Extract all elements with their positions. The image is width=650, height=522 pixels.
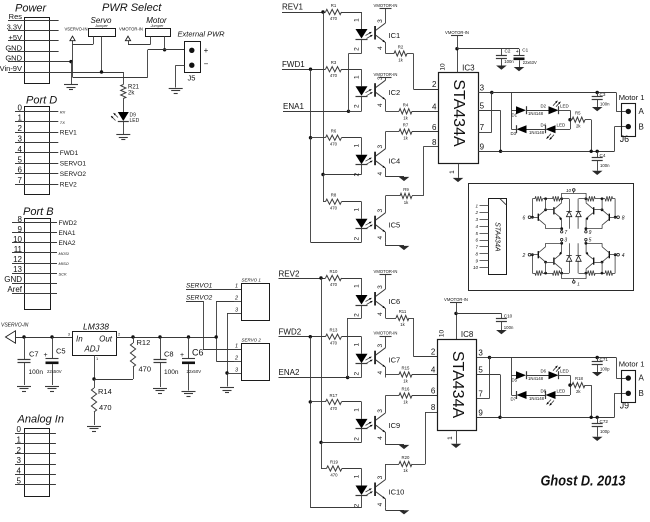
svg-text:4: 4 bbox=[432, 103, 437, 112]
svg-text:3: 3 bbox=[564, 238, 567, 244]
svg-text:R1: R1 bbox=[331, 3, 337, 8]
svg-text:2: 2 bbox=[431, 348, 436, 357]
svg-text:6: 6 bbox=[431, 387, 436, 396]
svg-text:IC7: IC7 bbox=[389, 356, 401, 365]
svg-text:R8: R8 bbox=[331, 193, 337, 198]
svg-text:3: 3 bbox=[377, 475, 384, 479]
svg-text:2: 2 bbox=[354, 237, 361, 241]
svg-text:3: 3 bbox=[377, 285, 384, 289]
svg-text:2: 2 bbox=[354, 313, 361, 317]
svg-text:C72: C72 bbox=[600, 419, 609, 424]
svg-text:10: 10 bbox=[473, 265, 479, 270]
svg-text:C71: C71 bbox=[600, 357, 609, 362]
svg-text:2: 2 bbox=[234, 296, 238, 302]
svg-text:3: 3 bbox=[18, 135, 23, 144]
svg-text:LM338: LM338 bbox=[83, 322, 109, 332]
svg-text:13: 13 bbox=[13, 265, 22, 274]
svg-text:9: 9 bbox=[18, 225, 23, 234]
svg-text:REV2: REV2 bbox=[60, 181, 77, 188]
svg-text:100n: 100n bbox=[504, 325, 514, 330]
svg-text:STA434A: STA434A bbox=[450, 79, 467, 147]
svg-text:IC8: IC8 bbox=[461, 330, 474, 339]
svg-text:2: 2 bbox=[354, 503, 361, 507]
svg-text:7: 7 bbox=[564, 230, 567, 236]
svg-text:3: 3 bbox=[478, 349, 483, 358]
svg-text:100n: 100n bbox=[600, 163, 610, 168]
svg-text:10: 10 bbox=[439, 330, 446, 338]
svg-text:B: B bbox=[639, 123, 644, 132]
svg-text:LED: LED bbox=[130, 118, 140, 124]
svg-text:C6: C6 bbox=[192, 348, 204, 358]
svg-text:3: 3 bbox=[377, 19, 384, 23]
svg-text:SERVO 2: SERVO 2 bbox=[242, 338, 262, 343]
svg-text:100p: 100p bbox=[600, 429, 610, 434]
svg-text:REV1: REV1 bbox=[60, 129, 77, 136]
svg-text:2: 2 bbox=[432, 80, 437, 89]
svg-text:D7: D7 bbox=[511, 397, 517, 402]
svg-text:SCK: SCK bbox=[59, 271, 68, 276]
svg-text:4: 4 bbox=[431, 366, 436, 375]
svg-text:RX: RX bbox=[60, 110, 66, 115]
svg-text:J6: J6 bbox=[620, 134, 629, 144]
svg-text:1N4148: 1N4148 bbox=[529, 396, 545, 401]
svg-text:IC2: IC2 bbox=[389, 88, 401, 97]
svg-text:3: 3 bbox=[377, 145, 384, 149]
svg-text:External PWR: External PWR bbox=[178, 30, 226, 39]
svg-text:−: − bbox=[204, 60, 209, 69]
svg-text:Jumper: Jumper bbox=[150, 24, 164, 28]
svg-text:7: 7 bbox=[18, 176, 23, 185]
svg-text:4: 4 bbox=[17, 466, 22, 475]
svg-text:8: 8 bbox=[431, 403, 436, 412]
svg-text:1: 1 bbox=[354, 408, 361, 412]
svg-text:3: 3 bbox=[377, 409, 384, 413]
svg-text:STA434A: STA434A bbox=[449, 351, 466, 419]
svg-text:5: 5 bbox=[18, 155, 23, 164]
svg-text:VMOTOR-IN: VMOTOR-IN bbox=[374, 72, 398, 77]
svg-text:R14: R14 bbox=[98, 387, 112, 396]
svg-text:4: 4 bbox=[18, 145, 23, 154]
svg-text:VMOTOR-IN: VMOTOR-IN bbox=[374, 331, 398, 336]
svg-text:4: 4 bbox=[377, 236, 384, 240]
svg-text:22x50V: 22x50V bbox=[47, 369, 62, 374]
svg-text:5: 5 bbox=[589, 238, 592, 244]
svg-text:4: 4 bbox=[377, 172, 384, 176]
svg-text:C2: C2 bbox=[505, 49, 511, 54]
svg-text:22x63V: 22x63V bbox=[523, 60, 537, 65]
svg-text:4: 4 bbox=[377, 312, 384, 316]
svg-text:100n: 100n bbox=[504, 59, 514, 64]
svg-text:6: 6 bbox=[523, 215, 526, 221]
svg-text:2: 2 bbox=[354, 173, 361, 177]
svg-text:C8: C8 bbox=[164, 350, 174, 359]
svg-text:C1: C1 bbox=[522, 48, 528, 53]
svg-text:470: 470 bbox=[330, 406, 338, 411]
svg-text:REV1: REV1 bbox=[282, 3, 303, 12]
svg-text:LED: LED bbox=[557, 388, 567, 393]
svg-text:R4: R4 bbox=[403, 102, 409, 107]
svg-text:SERVO 1: SERVO 1 bbox=[242, 278, 262, 283]
svg-text:2: 2 bbox=[474, 210, 478, 215]
svg-text:SERVO1: SERVO1 bbox=[60, 161, 87, 168]
svg-text:10: 10 bbox=[566, 188, 572, 193]
svg-text:Port B: Port B bbox=[23, 206, 54, 218]
svg-text:FWD2: FWD2 bbox=[59, 220, 78, 227]
svg-text:0: 0 bbox=[17, 425, 22, 434]
svg-text:470: 470 bbox=[330, 206, 338, 211]
svg-text:470: 470 bbox=[330, 282, 338, 287]
svg-text:4: 4 bbox=[622, 253, 625, 259]
svg-text:1: 1 bbox=[354, 144, 361, 148]
svg-text:C5: C5 bbox=[56, 347, 66, 356]
svg-text:470: 470 bbox=[330, 73, 338, 78]
svg-text:4: 4 bbox=[377, 436, 384, 440]
svg-text:FWD1: FWD1 bbox=[60, 150, 79, 157]
svg-text:C3: C3 bbox=[600, 92, 606, 97]
svg-text:R2: R2 bbox=[398, 45, 404, 50]
svg-text:3: 3 bbox=[480, 84, 485, 93]
svg-text:LED: LED bbox=[557, 123, 567, 128]
svg-text:Port D: Port D bbox=[26, 95, 57, 107]
svg-text:5: 5 bbox=[478, 366, 483, 375]
svg-text:IC6: IC6 bbox=[389, 297, 401, 306]
svg-text:ENA1: ENA1 bbox=[283, 102, 304, 111]
svg-text:R5: R5 bbox=[575, 111, 581, 116]
svg-text:470: 470 bbox=[330, 16, 338, 21]
svg-text:D8: D8 bbox=[541, 388, 547, 393]
svg-text:5: 5 bbox=[17, 477, 22, 486]
svg-text:C10: C10 bbox=[504, 314, 513, 319]
svg-text:IC1: IC1 bbox=[389, 31, 401, 40]
svg-text:8: 8 bbox=[622, 215, 625, 221]
svg-text:2k: 2k bbox=[128, 91, 135, 97]
svg-text:Out: Out bbox=[99, 335, 113, 344]
svg-text:D2: D2 bbox=[541, 104, 547, 109]
svg-text:GND: GND bbox=[5, 54, 22, 63]
svg-text:VMOTOR-IN: VMOTOR-IN bbox=[374, 269, 398, 274]
svg-text:R12: R12 bbox=[137, 338, 151, 347]
svg-text:MOSI: MOSI bbox=[59, 251, 70, 256]
svg-text:2: 2 bbox=[522, 253, 526, 259]
svg-text:+: + bbox=[516, 49, 519, 55]
svg-text:9: 9 bbox=[589, 230, 592, 236]
svg-text:1: 1 bbox=[354, 75, 361, 79]
svg-text:4: 4 bbox=[377, 502, 384, 506]
svg-text:22x50V: 22x50V bbox=[187, 369, 202, 374]
svg-text:D1: D1 bbox=[512, 113, 518, 118]
svg-text:Jumper: Jumper bbox=[94, 24, 108, 28]
svg-text:FWD1: FWD1 bbox=[282, 60, 305, 69]
svg-text:+: + bbox=[204, 46, 209, 55]
svg-text:1: 1 bbox=[354, 474, 361, 478]
svg-text:C4: C4 bbox=[600, 153, 606, 158]
svg-text:2: 2 bbox=[354, 372, 361, 376]
svg-text:R7: R7 bbox=[403, 123, 409, 128]
svg-text:6: 6 bbox=[18, 166, 23, 175]
svg-text:VMOTOR-IN: VMOTOR-IN bbox=[119, 27, 143, 32]
svg-text:0: 0 bbox=[18, 103, 23, 112]
svg-text:4: 4 bbox=[377, 46, 384, 50]
svg-text:STA434A: STA434A bbox=[493, 222, 500, 252]
svg-text:+: + bbox=[44, 352, 48, 359]
svg-text:GND: GND bbox=[4, 275, 22, 284]
svg-text:R13: R13 bbox=[330, 328, 338, 333]
svg-text:A: A bbox=[639, 374, 645, 383]
svg-text:9: 9 bbox=[480, 143, 485, 152]
svg-text:1: 1 bbox=[447, 436, 454, 440]
svg-text:1N4148: 1N4148 bbox=[528, 111, 544, 116]
svg-text:11: 11 bbox=[14, 245, 23, 254]
svg-text:2: 2 bbox=[18, 124, 23, 133]
svg-text:VSERVO-IN: VSERVO-IN bbox=[65, 27, 88, 32]
svg-text:3: 3 bbox=[377, 344, 384, 348]
svg-text:R15: R15 bbox=[402, 366, 410, 371]
svg-text:R17: R17 bbox=[330, 393, 338, 398]
svg-text:Res: Res bbox=[9, 12, 23, 21]
svg-text:4: 4 bbox=[377, 103, 384, 107]
svg-text:100n: 100n bbox=[600, 102, 610, 107]
svg-text:SERVO2: SERVO2 bbox=[60, 171, 87, 178]
svg-text:10: 10 bbox=[13, 235, 22, 244]
svg-text:Aref: Aref bbox=[7, 285, 22, 294]
svg-text:A: A bbox=[639, 107, 645, 116]
svg-text:VSERVO-IN: VSERVO-IN bbox=[1, 323, 29, 329]
svg-text:1: 1 bbox=[235, 284, 238, 290]
svg-text:8: 8 bbox=[18, 215, 23, 224]
svg-text:LED: LED bbox=[560, 104, 570, 109]
svg-text:2: 2 bbox=[234, 356, 238, 362]
svg-text:1: 1 bbox=[449, 170, 456, 174]
svg-text:VMOTOR-IN: VMOTOR-IN bbox=[374, 3, 398, 8]
svg-text:R9: R9 bbox=[403, 187, 409, 192]
svg-text:REV2: REV2 bbox=[279, 269, 300, 278]
svg-text:VMOTOR-IN: VMOTOR-IN bbox=[445, 30, 469, 35]
svg-text:IC4: IC4 bbox=[389, 157, 401, 166]
svg-text:Ghost D. 2013: Ghost D. 2013 bbox=[541, 473, 627, 490]
svg-text:8: 8 bbox=[432, 138, 437, 147]
svg-text:SERVO1: SERVO1 bbox=[186, 283, 213, 290]
svg-text:B: B bbox=[639, 389, 644, 398]
svg-text:6: 6 bbox=[432, 123, 437, 132]
svg-text:R18: R18 bbox=[575, 376, 583, 381]
svg-text:7: 7 bbox=[478, 390, 483, 399]
svg-text:ENA2: ENA2 bbox=[59, 240, 76, 247]
svg-text:R10: R10 bbox=[330, 269, 338, 274]
svg-text:1: 1 bbox=[354, 208, 361, 212]
svg-text:IC5: IC5 bbox=[389, 221, 401, 230]
svg-text:VMOTOR-IN: VMOTOR-IN bbox=[444, 297, 468, 302]
svg-text:PWR Select: PWR Select bbox=[102, 2, 162, 14]
svg-text:2: 2 bbox=[17, 446, 22, 455]
svg-text:1: 1 bbox=[235, 344, 238, 350]
svg-text:1: 1 bbox=[17, 436, 22, 445]
svg-text:4: 4 bbox=[377, 371, 384, 375]
svg-text:2: 2 bbox=[354, 47, 361, 51]
svg-text:1N4148: 1N4148 bbox=[528, 376, 544, 381]
svg-text:ENA1: ENA1 bbox=[59, 230, 76, 237]
svg-text:1: 1 bbox=[354, 284, 361, 288]
svg-text:2: 2 bbox=[354, 437, 361, 441]
svg-text:1: 1 bbox=[354, 343, 361, 347]
svg-text:3: 3 bbox=[377, 209, 384, 213]
svg-text:R3: R3 bbox=[331, 60, 337, 65]
svg-text:R16: R16 bbox=[402, 387, 410, 392]
svg-text:470: 470 bbox=[330, 142, 338, 147]
svg-text:ENA2: ENA2 bbox=[279, 368, 300, 377]
svg-text:5: 5 bbox=[480, 102, 485, 111]
svg-text:Motor 1: Motor 1 bbox=[619, 93, 645, 102]
svg-text:10: 10 bbox=[440, 63, 447, 71]
svg-text:In: In bbox=[76, 335, 83, 344]
svg-text:TX: TX bbox=[60, 120, 65, 125]
svg-text:100n: 100n bbox=[29, 369, 44, 376]
svg-text:9: 9 bbox=[478, 409, 483, 418]
svg-text:IC10: IC10 bbox=[389, 488, 405, 497]
svg-text:C7: C7 bbox=[29, 350, 39, 359]
svg-text:SERVO2: SERVO2 bbox=[186, 295, 213, 302]
svg-text:MISO: MISO bbox=[59, 261, 69, 266]
svg-text:12: 12 bbox=[13, 255, 22, 264]
svg-text:2: 2 bbox=[354, 104, 361, 108]
svg-text:1N4148: 1N4148 bbox=[529, 130, 545, 135]
svg-text:ADJ: ADJ bbox=[83, 345, 100, 354]
svg-text:100n: 100n bbox=[164, 369, 179, 376]
svg-text:470: 470 bbox=[139, 365, 152, 374]
svg-text:D6: D6 bbox=[541, 369, 547, 374]
svg-text:3.3V: 3.3V bbox=[7, 23, 22, 32]
svg-text:470: 470 bbox=[330, 341, 338, 346]
svg-text:R19: R19 bbox=[330, 460, 338, 465]
svg-text:GND: GND bbox=[5, 43, 22, 52]
svg-text:D5: D5 bbox=[512, 378, 518, 383]
svg-text:3: 3 bbox=[17, 456, 22, 465]
svg-text:J9: J9 bbox=[620, 401, 629, 411]
svg-text:R11: R11 bbox=[399, 309, 407, 314]
svg-text:Vin-9V: Vin-9V bbox=[0, 64, 22, 73]
svg-text:Motor 1: Motor 1 bbox=[619, 360, 645, 369]
svg-text:D3: D3 bbox=[511, 131, 517, 136]
svg-text:Analog In: Analog In bbox=[17, 414, 64, 426]
svg-text:470: 470 bbox=[330, 473, 338, 478]
svg-text:R20: R20 bbox=[402, 455, 410, 460]
svg-text:LED: LED bbox=[560, 369, 570, 374]
svg-text:1: 1 bbox=[354, 18, 361, 22]
svg-text:R6: R6 bbox=[331, 129, 337, 134]
svg-text:IC3: IC3 bbox=[462, 64, 475, 73]
svg-text:J5: J5 bbox=[188, 74, 196, 83]
svg-text:7: 7 bbox=[480, 123, 485, 132]
svg-text:IC9: IC9 bbox=[389, 421, 401, 430]
svg-text:470: 470 bbox=[99, 403, 112, 412]
svg-text:1: 1 bbox=[18, 114, 23, 123]
svg-text:+5V: +5V bbox=[8, 33, 22, 42]
svg-text:FWD2: FWD2 bbox=[279, 327, 302, 336]
svg-text:D4: D4 bbox=[541, 123, 547, 128]
svg-text:+: + bbox=[180, 352, 184, 359]
svg-text:100p: 100p bbox=[600, 367, 610, 372]
